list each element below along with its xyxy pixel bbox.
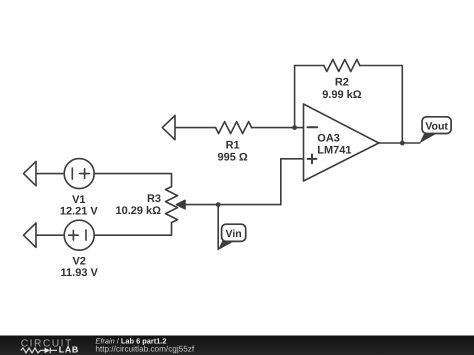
wire feedback right vertical	[401, 66, 403, 144]
op-amp plus input mark	[308, 155, 317, 164]
voltage source V1	[64, 159, 94, 189]
terminal arrow (V2 left)	[24, 223, 37, 247]
wire output	[379, 142, 420, 144]
wire R1 to op-amp inverting input	[252, 127, 304, 129]
svg-text:V1: V1	[72, 194, 85, 206]
node junction output	[400, 141, 405, 146]
svg-text:http://circuitlab.com/cgj55zf: http://circuitlab.com/cgj55zf	[95, 345, 194, 354]
svg-text:R3: R3	[147, 193, 161, 205]
svg-text:R1: R1	[226, 140, 240, 152]
wire op-amp plus input horizontal	[281, 158, 304, 160]
svg-text:995 Ω: 995 Ω	[217, 151, 247, 163]
terminal arrow (R1 input)	[162, 115, 175, 139]
resistor R1	[216, 122, 252, 134]
wire plus input vertical	[280, 159, 282, 205]
wire top left segment	[295, 65, 324, 67]
svg-text:OA3: OA3	[317, 133, 340, 145]
svg-text:Vout: Vout	[425, 120, 448, 132]
wire V2 left	[36, 234, 64, 236]
terminal arrow (V1 left)	[24, 161, 37, 185]
svg-text:V2: V2	[72, 255, 85, 267]
wire V1 left	[36, 173, 64, 175]
svg-text:12.21 V: 12.21 V	[60, 206, 99, 218]
voltage source V2	[64, 220, 94, 250]
svg-text:9.99 kΩ: 9.99 kΩ	[322, 89, 362, 101]
op-amp minus input mark	[308, 126, 318, 128]
CircuitLab logo resistor zigzag	[21, 348, 45, 353]
wire feedback left vertical	[294, 66, 296, 128]
wire arrow to R1	[176, 127, 216, 129]
svg-text:11.93 V: 11.93 V	[61, 267, 99, 279]
wire V2 to R3 bottom	[94, 223, 171, 236]
potentiometer R3 zigzag	[166, 187, 178, 223]
op-amp OA3 triangle	[304, 104, 379, 181]
wire V1 to R3 top	[94, 174, 171, 187]
wire Vin drop	[217, 205, 219, 250]
svg-text:LAB: LAB	[59, 345, 79, 355]
footer bar	[0, 335, 474, 355]
wire pot wiper to plus input	[185, 204, 281, 206]
flag Vin	[218, 224, 246, 250]
node junction Vin tap	[216, 202, 221, 207]
potentiometer R3 wiper arrow	[177, 200, 186, 208]
flag Vout	[419, 117, 451, 143]
resistor R2	[324, 60, 360, 72]
svg-text:10.29 kΩ: 10.29 kΩ	[115, 205, 161, 217]
wire top right segment	[360, 65, 403, 67]
svg-text:Vin: Vin	[226, 228, 242, 240]
svg-text:R2: R2	[335, 76, 349, 88]
CircuitLab logo diode	[45, 348, 51, 354]
node junction inverting input	[292, 125, 297, 130]
svg-text:LM741: LM741	[317, 144, 351, 156]
